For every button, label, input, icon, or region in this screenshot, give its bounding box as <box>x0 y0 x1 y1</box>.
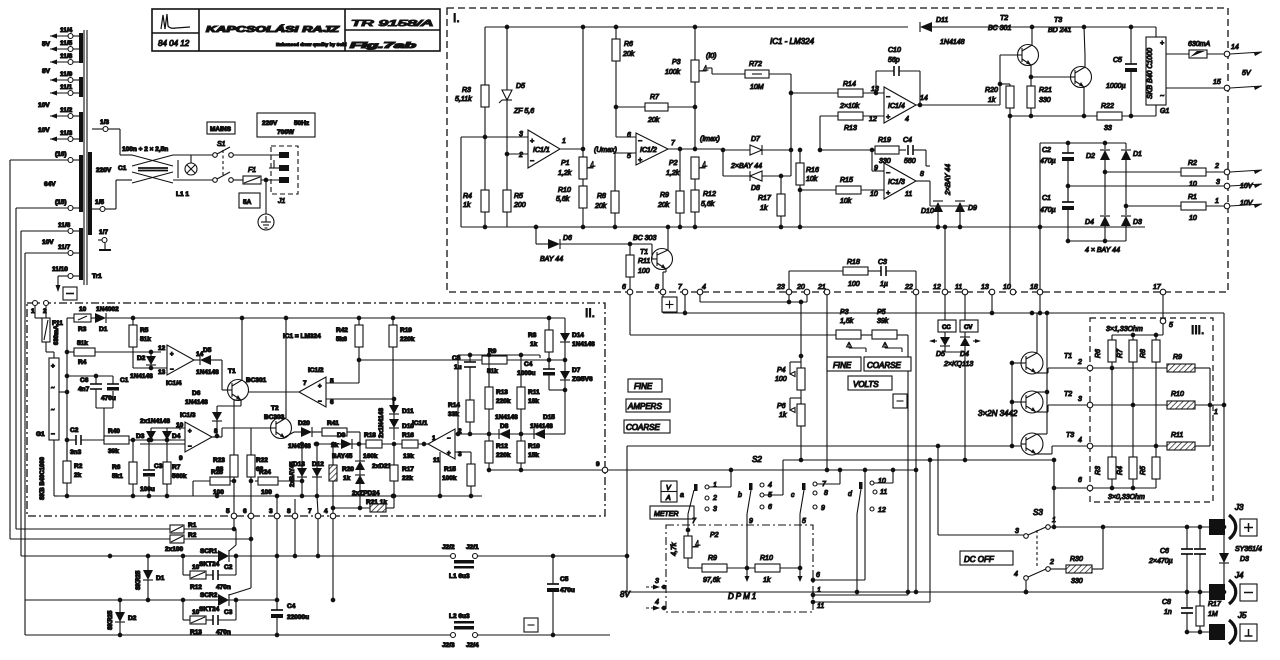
svg-text:BAY 44: BAY 44 <box>540 256 563 263</box>
svg-text:4: 4 <box>702 284 706 291</box>
svg-text:84 04 12: 84 04 12 <box>158 39 190 48</box>
svg-text:R4: R4 <box>1117 466 1124 475</box>
svg-text:F1: F1 <box>248 167 256 174</box>
section I bottom pins <box>627 289 633 295</box>
DPM1 terminal 3 <box>662 585 666 589</box>
section III dashed border <box>1090 318 1213 502</box>
svg-text:11: 11 <box>433 457 440 464</box>
svg-text:3: 3 <box>1216 179 1220 186</box>
resistor R9 hatched <box>1167 364 1195 372</box>
tap 11/6 wire <box>73 230 79 232</box>
pot P2 1,2k <box>691 157 699 179</box>
resistor R9 20k <box>679 149 681 191</box>
resistor R13 <box>820 115 838 117</box>
section I dashed border <box>447 8 1228 292</box>
svg-text:D9: D9 <box>337 432 346 439</box>
wire IC1/1 out to P1 <box>560 148 583 150</box>
svg-text:200: 200 <box>513 202 526 209</box>
pin 4 of section III <box>1087 443 1093 449</box>
svg-text:R8: R8 <box>1140 349 1147 358</box>
switch S2 section a <box>694 484 698 491</box>
svg-text:II.: II. <box>585 306 595 320</box>
svg-text:3n3: 3n3 <box>70 449 82 456</box>
minus mark box <box>893 394 907 408</box>
wire pin8 to plus bus <box>662 295 664 313</box>
svg-text:5,11k: 5,11k <box>455 96 472 103</box>
snubber R12 10 <box>182 556 184 575</box>
wire y302 row <box>700 301 807 303</box>
diode D1 <box>1125 143 1127 149</box>
svg-text:3: 3 <box>1078 396 1082 403</box>
svg-text:18k: 18k <box>528 398 539 405</box>
svg-text:11/8: 11/8 <box>60 53 73 60</box>
svg-text:R12: R12 <box>496 443 508 450</box>
snubber R13 10 <box>182 600 184 620</box>
wire main bus y313 <box>663 312 1224 314</box>
diode D4 <box>166 428 168 431</box>
title block frame <box>152 9 440 51</box>
svg-text:+: + <box>530 138 534 145</box>
wire pin2 row of IC1/1 <box>458 433 550 435</box>
svg-text:~: ~ <box>51 386 55 392</box>
wire from R41 down <box>359 444 361 458</box>
svg-text:11/5: 11/5 <box>60 40 73 47</box>
svg-text:TR 9158/A: TR 9158/A <box>351 19 433 28</box>
rectifier G1 SKB B40C1000 <box>53 352 55 358</box>
svg-text:R13: R13 <box>496 389 508 396</box>
transistor T2 2N3442 <box>1021 391 1043 413</box>
svg-text:D4: D4 <box>172 433 181 440</box>
pin 6 of section II <box>248 513 254 519</box>
svg-text:IC1/2: IC1/2 <box>640 147 657 154</box>
svg-text:COARSE: COARSE <box>867 361 901 370</box>
transformer primary winding bar <box>88 152 92 235</box>
wire IC1/1 pin11 <box>439 452 441 496</box>
svg-text:−: − <box>886 170 890 177</box>
svg-text:IC1/4: IC1/4 <box>166 380 182 387</box>
wire T2 collector <box>285 318 287 418</box>
pin 6 of section III <box>1087 485 1093 491</box>
svg-text:R2: R2 <box>188 532 197 539</box>
minus mark box <box>524 618 538 632</box>
wire IC1/2 pin5 <box>615 152 636 154</box>
svg-text:4,7k: 4,7k <box>671 542 678 556</box>
wire top bus of section I <box>485 26 908 28</box>
wire x1054 sense <box>1053 460 1055 527</box>
svg-text:G1: G1 <box>1160 108 1169 115</box>
DC OFF box <box>960 551 1013 565</box>
plus mark box <box>662 297 677 312</box>
svg-text:11/7: 11/7 <box>58 244 71 251</box>
wire D9 R18 R16 row <box>316 443 428 445</box>
svg-text:D9: D9 <box>968 205 977 212</box>
wire sense bus down <box>1223 313 1225 527</box>
wire bottom diode row <box>1068 240 1126 242</box>
svg-text:J2/3: J2/3 <box>442 642 455 649</box>
svg-text:CV: CV <box>964 325 972 331</box>
svg-text:IC1 = LM324: IC1 = LM324 <box>283 333 321 340</box>
transistor T2 BC303 <box>271 418 292 439</box>
transistor T3 2N3442 <box>1021 433 1043 455</box>
resistor R19 220k <box>392 318 394 325</box>
svg-text:(Imax): (Imax) <box>700 136 720 143</box>
wire T3 collector <box>1084 55 1086 67</box>
svg-text:10M: 10M <box>750 84 764 91</box>
svg-text:BAY45: BAY45 <box>332 453 353 460</box>
svg-text:III.: III. <box>1191 323 1204 337</box>
transistor T3 BD241 <box>1071 67 1092 88</box>
svg-text:7: 7 <box>308 508 312 515</box>
wire R2 row <box>10 538 170 540</box>
svg-text:100: 100 <box>848 281 860 288</box>
svg-text:c: c <box>791 492 795 499</box>
wire IC1/1 pin3 <box>461 136 528 138</box>
wire T3 collector <box>1037 433 1047 435</box>
wire P5 to x908 down <box>907 335 909 595</box>
svg-text:D4: D4 <box>1085 219 1094 226</box>
diode D4 <box>1104 172 1106 215</box>
svg-text:IC1/1: IC1/1 <box>412 420 428 427</box>
svg-text:IC1/3: IC1/3 <box>180 412 196 419</box>
svg-text:1: 1 <box>1052 517 1056 524</box>
svg-text:630mA: 630mA <box>54 325 60 345</box>
svg-text:8: 8 <box>214 428 218 435</box>
resistor R3 10 <box>67 317 74 319</box>
svg-text:Fig.7ab: Fig.7ab <box>350 41 416 50</box>
svg-text:C3: C3 <box>224 609 233 616</box>
svg-text:R15: R15 <box>840 177 853 184</box>
pin 8 of section II <box>292 513 298 519</box>
VOLTS box <box>848 376 892 390</box>
mains rating box <box>257 113 315 137</box>
svg-text:+: + <box>188 429 192 435</box>
svg-text:I.: I. <box>453 11 460 25</box>
wire T1 collector <box>1036 313 1038 353</box>
svg-text:4: 4 <box>1078 437 1082 444</box>
resistor R2 10 <box>1181 168 1206 176</box>
wire x938 to S3 <box>937 446 939 535</box>
wire L1 bus y555 <box>20 555 22 557</box>
svg-text:2: 2 <box>1049 559 1054 566</box>
svg-text:12: 12 <box>869 116 877 123</box>
svg-text:D6: D6 <box>563 235 572 242</box>
pin 5 of section III <box>1160 318 1166 324</box>
tap 11/5 <box>73 48 79 50</box>
svg-text:11: 11 <box>905 191 912 198</box>
resistor R3 <box>1111 368 1113 457</box>
svg-text:R8: R8 <box>528 332 537 339</box>
wire T1 collector <box>241 318 243 380</box>
capacitor C4 22000u <box>276 556 278 610</box>
svg-text:4: 4 <box>655 599 659 606</box>
wire IC1/2 out to T1 base <box>248 391 299 393</box>
svg-text:P1: P1 <box>561 160 570 167</box>
resistor R8 20k <box>611 191 619 213</box>
transformer Tr1 core <box>83 30 85 285</box>
svg-text:13: 13 <box>158 369 166 376</box>
svg-text:22k: 22k <box>402 475 413 482</box>
svg-text:R5: R5 <box>1140 466 1147 475</box>
earth symbol <box>264 178 268 182</box>
svg-text:5: 5 <box>627 153 631 160</box>
svg-text:R30: R30 <box>1070 556 1083 563</box>
svg-text:R1: R1 <box>1188 194 1197 201</box>
snubber C3 470n <box>212 615 214 625</box>
wire pin21 down long <box>826 295 828 470</box>
op-amp IC1/4 <box>884 87 916 123</box>
svg-text:1u: 1u <box>454 364 462 371</box>
svg-text:S1: S1 <box>217 141 226 148</box>
resistor R11 18k <box>520 355 522 387</box>
svg-text:R23: R23 <box>213 457 225 464</box>
wire T1 emitter to pin2 <box>1036 372 1048 374</box>
terminal 3 <box>1224 183 1230 189</box>
svg-text:P3: P3 <box>840 309 849 316</box>
resistor R1 100 <box>170 525 184 533</box>
svg-text:D6: D6 <box>192 390 201 397</box>
svg-text:R11: R11 <box>528 389 540 396</box>
svg-text:1000u: 1000u <box>517 370 535 377</box>
diode D9 BAY45 <box>341 439 352 449</box>
capacitor C5 470u <box>552 556 554 584</box>
capacitor C6b <box>1199 527 1201 549</box>
svg-text:R11: R11 <box>1171 432 1183 439</box>
svg-text:6: 6 <box>330 399 334 406</box>
svg-text:L1 6u3: L1 6u3 <box>449 573 470 580</box>
wire bottom bus section I <box>461 226 1145 228</box>
svg-text:J4: J4 <box>1234 571 1244 580</box>
wire y335 row <box>630 334 836 336</box>
svg-text:−: − <box>447 436 451 442</box>
resistor R3 5,11k <box>484 27 486 85</box>
svg-text:700W: 700W <box>277 129 295 136</box>
svg-text:R6: R6 <box>112 464 121 471</box>
svg-text:P3: P3 <box>672 59 681 66</box>
tap 11/1 <box>73 92 79 94</box>
diode D10 <box>930 205 968 207</box>
indicator CV box <box>960 320 978 332</box>
wire IC1/3 pin10 <box>151 427 185 429</box>
svg-text:J5: J5 <box>1237 611 1247 620</box>
wire terminal1 row <box>1126 205 1181 207</box>
svg-text:D5: D5 <box>516 83 525 90</box>
wire R22 row <box>1010 115 1097 117</box>
wire pin17 down <box>1162 295 1164 318</box>
svg-text:R7: R7 <box>1117 348 1124 358</box>
svg-text:15: 15 <box>1213 79 1221 86</box>
svg-text:−: − <box>530 158 534 165</box>
svg-text:100: 100 <box>775 376 787 383</box>
svg-text:39k: 39k <box>108 448 119 455</box>
resistor R10 hatched <box>1167 401 1195 409</box>
wire LED join down <box>944 346 946 352</box>
svg-text:−: − <box>170 367 174 373</box>
svg-text:R9: R9 <box>708 555 717 562</box>
svg-text:DPM1: DPM1 <box>728 592 758 601</box>
resistor R5 <box>1155 446 1157 457</box>
pin 3 of section III <box>1087 402 1093 408</box>
svg-text:100: 100 <box>638 268 650 275</box>
COARSE box left <box>624 420 670 433</box>
svg-text:3: 3 <box>1015 528 1019 535</box>
svg-text:11/2: 11/2 <box>60 107 73 114</box>
svg-text:100k: 100k <box>442 475 457 482</box>
svg-text:ZF 5,6: ZF 5,6 <box>513 108 534 115</box>
switch S2 section b <box>749 483 753 490</box>
capacitor C6 4n7 <box>95 376 97 384</box>
svg-text:2: 2 <box>1214 163 1219 170</box>
diode D13 <box>301 444 303 468</box>
svg-text:R25: R25 <box>211 469 223 476</box>
svg-text:J2/1: J2/1 <box>466 544 479 551</box>
svg-text:SY351/4: SY351/4 <box>1235 546 1262 553</box>
resistor R25 100 <box>193 480 210 482</box>
svg-text:1N4148: 1N4148 <box>185 399 208 406</box>
wire S2b pole down <box>746 525 748 568</box>
svg-text:R40: R40 <box>108 428 120 435</box>
capacitor C2 470u <box>1067 143 1069 153</box>
op-amp IC1/2 <box>299 377 326 407</box>
primary tap 1/7 ground <box>98 239 102 241</box>
resistor R15 10k <box>800 189 836 191</box>
resistor R72 10M <box>706 67 712 69</box>
resistor R5 51k <box>132 318 134 325</box>
rectifier SKB B40 C1000 <box>1155 27 1157 37</box>
wire S2a contact1 <box>709 486 731 488</box>
wire SCR2 row <box>25 599 218 601</box>
svg-text:50Hz: 50Hz <box>294 120 310 127</box>
svg-text:100u: 100u <box>140 486 155 493</box>
fuse F1 <box>243 176 261 184</box>
wire T2 emitter to pin3 <box>1036 411 1048 413</box>
resistor R42 5k6 <box>358 318 360 325</box>
svg-text:2×BAY 44: 2×BAY 44 <box>730 163 762 170</box>
svg-text:9: 9 <box>179 455 183 462</box>
svg-text:IC1 - LM324: IC1 - LM324 <box>770 37 815 46</box>
DPM1 terminal 4 <box>662 606 666 610</box>
DPM1 dash-dot box <box>666 525 813 612</box>
inductor L2 6u3 <box>454 626 474 630</box>
svg-text:D8: D8 <box>751 185 760 192</box>
wire top row section III <box>1112 334 1163 336</box>
svg-text:D11: D11 <box>936 17 948 24</box>
svg-text:470µ: 470µ <box>1040 158 1056 165</box>
svg-text:C3: C3 <box>154 463 163 470</box>
svg-text:10V: 10V <box>1240 183 1254 190</box>
tap 11/2 <box>73 115 79 117</box>
op-amp IC1/3 <box>185 422 212 452</box>
resistor R18 100 <box>843 267 868 275</box>
svg-text:R41: R41 <box>327 420 339 427</box>
wire row 4 <box>1093 445 1167 447</box>
zener D7 ZG5V6 <box>560 371 570 380</box>
diode D3 <box>1125 206 1127 215</box>
op-amp IC1/4 <box>167 345 194 375</box>
svg-text:6: 6 <box>816 572 820 579</box>
svg-text:−: − <box>886 94 890 101</box>
svg-text:C6: C6 <box>80 377 89 384</box>
resistor R22 68 <box>250 428 252 455</box>
mains lamp <box>185 163 197 175</box>
svg-text:a: a <box>680 492 684 499</box>
svg-text:1: 1 <box>1215 198 1219 205</box>
inductor L1 6u3 <box>454 560 474 564</box>
wire G1 plus out <box>59 391 67 393</box>
svg-text:11: 11 <box>955 284 962 291</box>
svg-text:R10: R10 <box>528 443 540 450</box>
svg-text:2x1N4148: 2x1N4148 <box>140 418 170 425</box>
svg-text:33: 33 <box>1104 125 1112 132</box>
svg-text:R10: R10 <box>558 187 571 194</box>
svg-text:R24: R24 <box>259 469 271 476</box>
svg-text:(Umax): (Umax) <box>594 147 617 154</box>
svg-text:R16: R16 <box>402 432 414 439</box>
wire R18 C3 row <box>789 270 843 272</box>
wire IC1/2 pin6 <box>616 136 636 138</box>
svg-text:ZG5V6: ZG5V6 <box>572 376 593 383</box>
wire T2 collector <box>1031 27 1033 45</box>
svg-text:SKB B40 C1000: SKB B40 C1000 <box>1147 48 1154 99</box>
diode D6 BAY44 <box>535 227 537 244</box>
op-amp IC1/1 <box>528 130 560 168</box>
svg-text:10k: 10k <box>840 198 852 205</box>
svg-text:1: 1 <box>817 587 821 594</box>
svg-text:1: 1 <box>713 482 717 489</box>
svg-text:R2: R2 <box>1188 160 1197 167</box>
svg-text:1N4002: 1N4002 <box>96 306 119 313</box>
svg-text:330: 330 <box>1071 578 1083 585</box>
wire S2c contact7 <box>817 483 840 485</box>
pin 3 of section II <box>274 513 280 519</box>
svg-text:+: + <box>318 384 322 390</box>
svg-text:T2: T2 <box>1000 15 1008 22</box>
resistor R14 2x10k <box>791 92 838 94</box>
LED D5 <box>944 332 946 337</box>
wire pin7 down <box>684 295 686 313</box>
svg-text:~: ~ <box>1160 93 1164 100</box>
wire C2 D2 D1 top row <box>1040 142 1126 144</box>
svg-text:R22: R22 <box>256 457 268 464</box>
capacitor C2 3n3 <box>67 439 76 441</box>
svg-text:23: 23 <box>776 284 785 291</box>
AMPERS box <box>626 399 670 412</box>
svg-text:10V: 10V <box>1240 200 1254 207</box>
svg-text:T3: T3 <box>1054 17 1062 24</box>
svg-text:R17: R17 <box>1208 601 1222 608</box>
svg-text:100: 100 <box>213 489 224 496</box>
fuse rating box <box>239 193 260 208</box>
svg-text:11/1: 11/1 <box>60 84 73 91</box>
svg-text:C8: C8 <box>1162 599 1171 606</box>
svg-text:6: 6 <box>1078 477 1082 484</box>
svg-text:C1: C1 <box>120 377 129 384</box>
svg-text:6: 6 <box>768 504 772 511</box>
svg-text:1,2k: 1,2k <box>558 170 572 177</box>
svg-text:6: 6 <box>622 284 626 291</box>
svg-text:D7: D7 <box>572 367 581 374</box>
svg-text:22000u: 22000u <box>287 614 309 621</box>
wire SCR1 row <box>21 555 218 557</box>
svg-text:1N4148: 1N4148 <box>572 341 595 348</box>
svg-text:T1: T1 <box>640 249 648 256</box>
svg-text:R3: R3 <box>1095 466 1102 475</box>
svg-text:D3: D3 <box>136 433 145 440</box>
wire IC1/4 pin13 <box>133 367 167 369</box>
svg-text:1/3: 1/3 <box>100 119 109 126</box>
svg-text:1k: 1k <box>763 577 771 584</box>
wire pin8 down <box>294 519 296 556</box>
svg-text:2xBAY45: 2xBAY45 <box>290 461 296 487</box>
